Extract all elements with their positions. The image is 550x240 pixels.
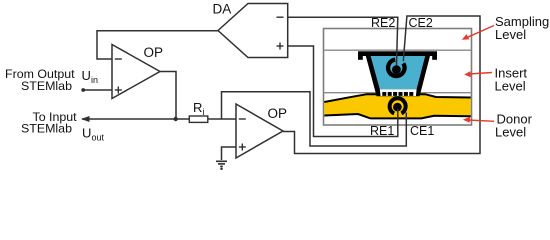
electrode ring bottom (in channel) bbox=[390, 98, 406, 113]
op-amp OP2 (current follower) bbox=[236, 104, 287, 158]
op-amp OP1 (control amplifier) bbox=[112, 45, 163, 99]
electrode ring top (in insert) bbox=[388, 60, 404, 76]
svg-text:i: i bbox=[203, 107, 205, 117]
svg-text:STEMlab: STEMlab bbox=[21, 121, 72, 135]
svg-text:RE2: RE2 bbox=[371, 16, 395, 30]
resistor Ri bbox=[189, 100, 208, 123]
wire: DA output to OP1 - input (feedback) bbox=[97, 31, 218, 59]
donor level separator line bbox=[324, 92, 472, 94]
insert body (black walls, cyan fill) bbox=[366, 56, 430, 96]
label: To Input STEMlab bbox=[21, 110, 77, 136]
label: U_in bbox=[82, 68, 99, 85]
wire: OP2 + input to ground bbox=[222, 147, 237, 160]
svg-text:R: R bbox=[193, 100, 202, 115]
wire: U_out line through Ri to OP2 - input bbox=[82, 118, 236, 120]
wire: OP2 - node to CE1 bbox=[222, 92, 407, 146]
electrode dot bottom (RE1 contact) bbox=[393, 103, 402, 112]
differential amplifier DA bbox=[213, 2, 288, 58]
label: U_out bbox=[82, 126, 105, 143]
node junction dot bbox=[174, 117, 178, 121]
cell chamber outer box bbox=[324, 29, 472, 126]
label: Donor Level bbox=[495, 112, 533, 140]
svg-text:CE2: CE2 bbox=[409, 16, 433, 30]
label: From Output STEMlab bbox=[5, 67, 75, 93]
svg-text:CE1: CE1 bbox=[410, 124, 434, 138]
svg-text:OP: OP bbox=[268, 106, 288, 121]
label: Sampling Level bbox=[495, 14, 549, 42]
wire: DA - input to RE2 bbox=[288, 17, 398, 65]
red arrow: Sampling Level bbox=[462, 26, 494, 40]
ground symbol bbox=[216, 161, 227, 166]
svg-text:in: in bbox=[91, 75, 98, 85]
red arrow: Insert Level bbox=[464, 71, 492, 77]
U_out arrowhead bbox=[81, 116, 90, 122]
wire: DA + input to RE1 bbox=[288, 46, 398, 137]
sampling level separator line bbox=[324, 49, 472, 51]
svg-text:Level: Level bbox=[495, 125, 526, 140]
svg-text:U: U bbox=[82, 126, 91, 141]
wire: U_in to OP1 + input bbox=[81, 88, 112, 92]
label: Insert Level bbox=[495, 66, 528, 94]
insert flange bbox=[358, 51, 437, 60]
membrane (dashed) bbox=[382, 92, 413, 96]
wire: OP2 output wrap-around to CE2 bbox=[283, 16, 480, 154]
svg-text:RE1: RE1 bbox=[370, 124, 394, 138]
wire: OP1 output down to measurement node bbox=[160, 72, 176, 120]
svg-text:STEMlab: STEMlab bbox=[21, 79, 72, 93]
svg-text:Level: Level bbox=[495, 79, 526, 94]
svg-text:out: out bbox=[92, 133, 105, 143]
svg-text:OP: OP bbox=[144, 45, 164, 60]
donor channel (yellow) bbox=[324, 94, 470, 118]
svg-text:Level: Level bbox=[495, 27, 526, 42]
svg-text:DA: DA bbox=[213, 2, 232, 17]
electrode dot top (RE2 contact) bbox=[392, 65, 401, 74]
red arrow: Donor Level bbox=[463, 117, 494, 123]
svg-text:U: U bbox=[82, 68, 91, 83]
